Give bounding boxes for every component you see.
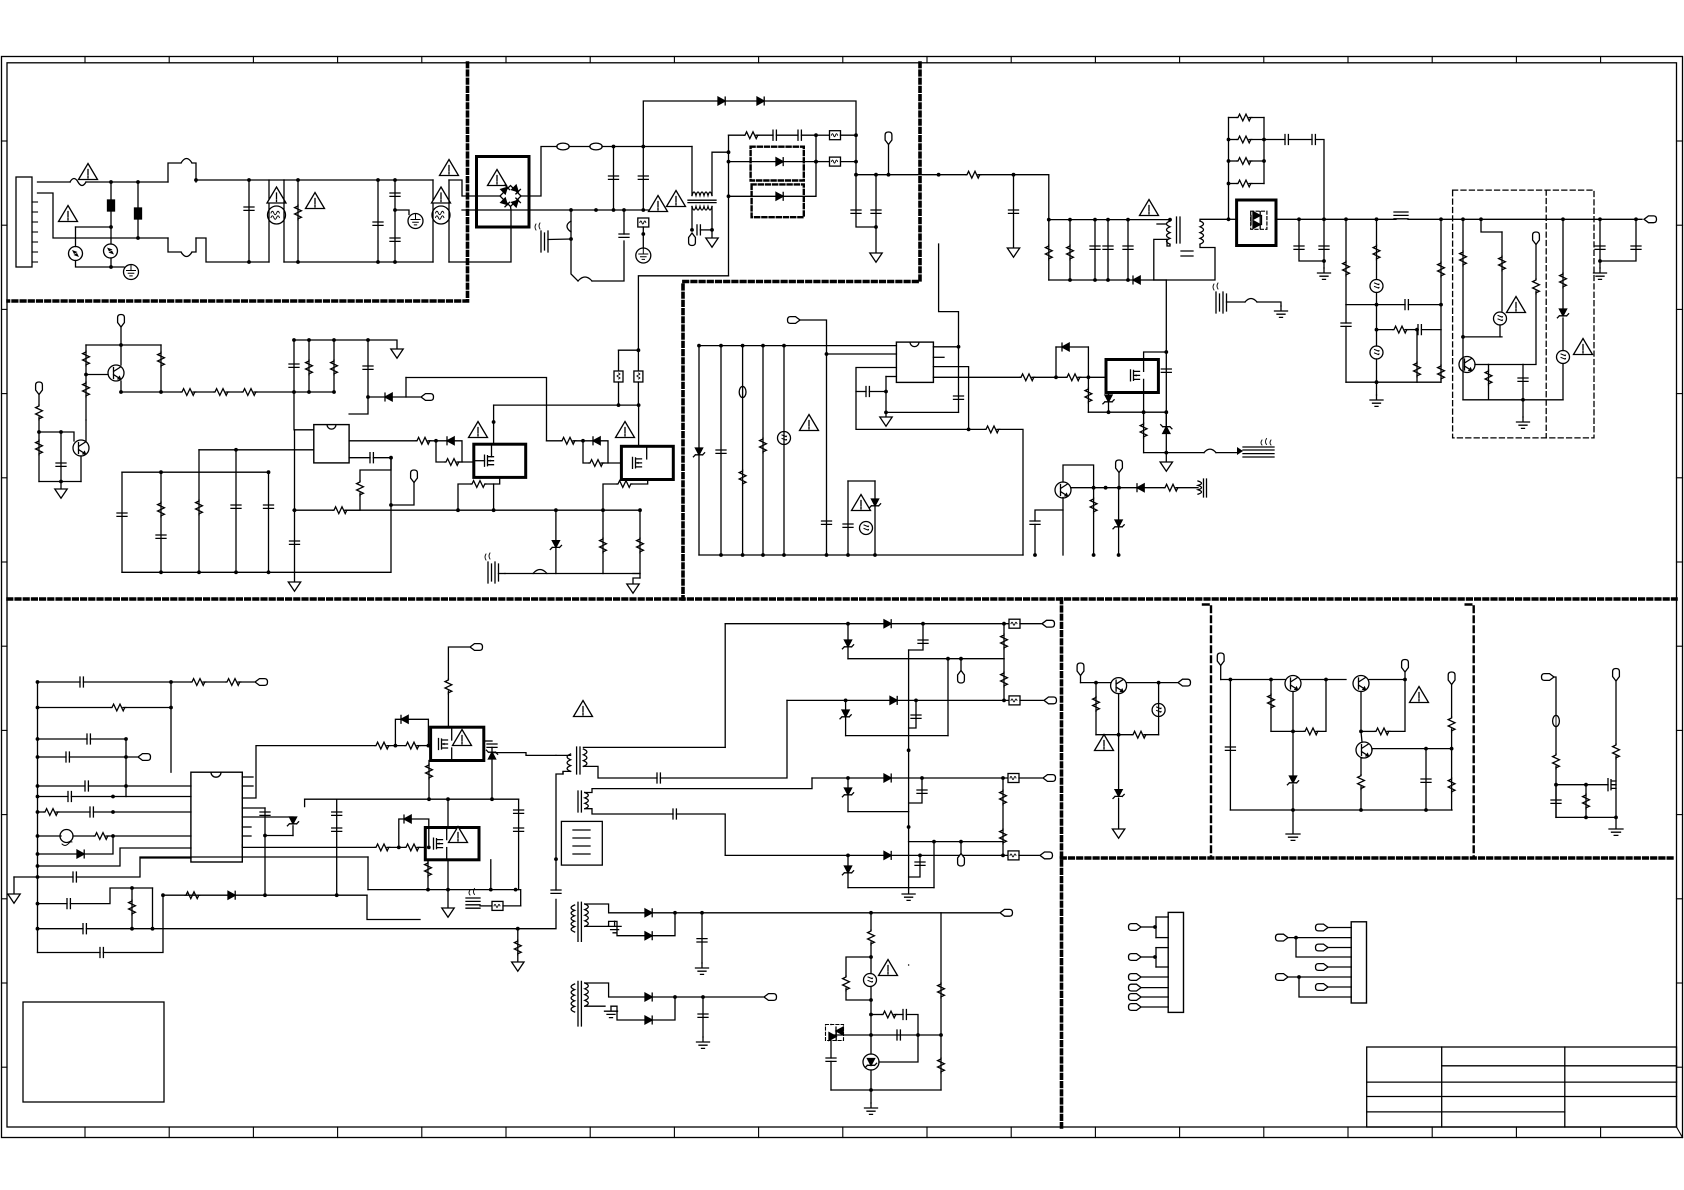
- resistor R10: [1438, 365, 1445, 380]
- wire rect diode bus2: [1261, 216, 1263, 225]
- wire c2 row2: [1271, 730, 1304, 732]
- wire R20 col: [85, 345, 87, 375]
- chassis ground sym2: [1609, 829, 1623, 835]
- warning triangle above bridge: [440, 160, 459, 176]
- node: [1450, 747, 1454, 751]
- wire QC source int: [451, 748, 453, 761]
- wire out row1 riser: [724, 624, 726, 748]
- node: [161, 893, 165, 897]
- wire sgnd center: [908, 964, 910, 966]
- wire x1166 down: [1165, 412, 1167, 452]
- wire Q14 col: [1360, 692, 1362, 732]
- node: [907, 825, 911, 829]
- wire Q13 col c: [1292, 785, 1294, 810]
- wire R84 col: [1585, 785, 1587, 818]
- earth ground sym7: [696, 963, 709, 974]
- wire D12 to flag: [392, 396, 420, 398]
- wire IC1 stub4: [242, 835, 251, 837]
- wire IC2 stub: [933, 356, 944, 358]
- warning triangle QD: [449, 827, 468, 843]
- wire QD drain int: [446, 828, 448, 840]
- wire row757 b: [69, 756, 137, 758]
- wire FB2 drop: [960, 842, 962, 854]
- diode D28: [884, 774, 891, 782]
- wire fbg top col: [870, 913, 872, 930]
- fuse F1: [70, 179, 86, 186]
- wire c3 col2: [1615, 756, 1617, 817]
- wire R9 col: [1416, 330, 1418, 383]
- capacitor C31: [264, 505, 274, 508]
- node: [700, 911, 704, 915]
- wire C1 column: [613, 147, 615, 211]
- resistor R80: [1448, 717, 1455, 732]
- wire p3 line: [1141, 976, 1168, 978]
- diode D25: [645, 1016, 652, 1024]
- thermistor TH1: [739, 386, 746, 397]
- wire row2 return: [846, 735, 948, 737]
- wire top rail stage2: [196, 179, 284, 181]
- wire R27 col: [38, 432, 40, 482]
- wire x948 col: [947, 659, 949, 736]
- wire row682 c: [171, 681, 191, 683]
- border zone ticks top: [85, 57, 1601, 63]
- wire R76 col: [1270, 680, 1272, 732]
- wire RL2 right: [1249, 139, 1264, 141]
- resistor R76: [1268, 694, 1275, 709]
- wire T3 sec top: [583, 746, 725, 748]
- resistor R65: [1001, 634, 1008, 649]
- fusible resistor FR9: [1008, 774, 1019, 783]
- wire bank2 bottom rail: [122, 571, 295, 573]
- thermistor TH2: [60, 830, 73, 843]
- wire C26 col: [293, 340, 295, 392]
- transformer T4 winding: [585, 793, 589, 809]
- node: [159, 470, 163, 474]
- capacitor C2: [638, 176, 648, 179]
- wire C13 to C14: [1288, 139, 1312, 141]
- node: [710, 228, 714, 232]
- wire node to FR2: [816, 134, 830, 136]
- resistor R25: [242, 389, 257, 396]
- diode D20: [228, 891, 235, 899]
- wire R10 col: [1440, 330, 1442, 383]
- resistor R70: [843, 976, 850, 991]
- node: [854, 173, 858, 177]
- wire C74 col: [909, 855, 920, 877]
- wire PC6 right: [879, 1035, 918, 1062]
- wire gateA to box: [417, 745, 431, 747]
- wire U2 out: [1276, 218, 1299, 220]
- node: [59, 480, 63, 484]
- warning triangle in BD1: [488, 170, 507, 186]
- capacitor C74: [915, 862, 925, 865]
- wire F2 to F3: [569, 146, 590, 148]
- terminal flag P8: [1276, 934, 1289, 941]
- node: [151, 927, 155, 931]
- wire p4 line: [1141, 987, 1168, 989]
- capacitor C14: [1312, 135, 1315, 145]
- node: [1269, 678, 1273, 682]
- wire C11 column: [1107, 220, 1109, 280]
- wire row707 b: [123, 707, 171, 709]
- wire ladder tap: [1264, 139, 1285, 141]
- wire IC1 stub2: [242, 785, 253, 787]
- signal ground sym1: [706, 238, 718, 247]
- wire HT2 link: [480, 905, 492, 907]
- wire R63 col: [427, 860, 429, 890]
- wire c2 flag2 riser: [1404, 672, 1406, 680]
- diode D24: [645, 993, 652, 1001]
- wire x294 col: [294, 392, 314, 430]
- transformer T5 right winding: [585, 904, 589, 926]
- signal ground sym4: [55, 489, 67, 498]
- wire RX1 column: [297, 180, 299, 262]
- node: [1439, 217, 1443, 221]
- terminal flag PFC-GND: [689, 233, 696, 246]
- wire x368 down: [349, 397, 368, 414]
- node: [1227, 138, 1231, 142]
- node: [36, 852, 40, 856]
- wire ZD12 col: [847, 855, 849, 887]
- main horizontal section dotted divider: [8, 597, 1676, 601]
- node: [247, 260, 251, 264]
- node: [887, 173, 891, 177]
- wire out row2 c: [1020, 699, 1043, 701]
- sub-circuit bottom dotted divider: [1062, 856, 1677, 860]
- node: [1439, 303, 1443, 307]
- node: [1164, 451, 1168, 455]
- node: [641, 145, 645, 149]
- wire fb row1b: [1408, 304, 1441, 306]
- node: [376, 260, 380, 264]
- node: [1126, 218, 1130, 222]
- node: [1153, 955, 1157, 959]
- wire 24V rail: [1299, 218, 1396, 220]
- wire IC2 fb loop: [856, 368, 985, 430]
- aux mosfet QS box: [1106, 360, 1158, 393]
- terminal flag B+sense: [885, 132, 892, 145]
- node: [1461, 335, 1465, 339]
- terminal flag DIM: [255, 679, 268, 686]
- wire snubber diode col: [491, 747, 493, 752]
- resistor R82: [1553, 754, 1560, 769]
- wire prot col2: [1481, 219, 1502, 232]
- node: [1227, 217, 1231, 221]
- wire node to FR3: [816, 161, 830, 163]
- node: [1168, 218, 1172, 222]
- node: [554, 508, 558, 512]
- capacitor C75: [903, 1010, 906, 1020]
- wire FR5 bottom lead: [637, 382, 639, 405]
- resistor R55: [129, 900, 136, 915]
- node: [36, 784, 40, 788]
- wire left col fbg c: [830, 1061, 832, 1090]
- wire C27 col: [367, 340, 369, 397]
- wire c2 left col: [1229, 680, 1231, 811]
- wire bottom rail stage3: [284, 261, 433, 263]
- node: [1424, 808, 1428, 812]
- node: [594, 208, 598, 212]
- relay arc 3: [533, 570, 547, 574]
- wire p11 loop: [1299, 977, 1351, 997]
- wire IC2 pin6 row: [933, 376, 1020, 378]
- sub-circuit cell dotted divider 2: [1466, 605, 1474, 859]
- wire RT1 column: [110, 182, 112, 227]
- wire T-PFC main out: [712, 152, 729, 195]
- protection dashed divider: [1545, 190, 1547, 438]
- warning triangle QC: [453, 730, 472, 746]
- wire fb row2: [1377, 329, 1394, 331]
- wire C22 col: [1600, 219, 1636, 261]
- resistor R78: [1375, 728, 1390, 735]
- wire C71 col: [909, 624, 923, 650]
- fusible resistor FR8: [1009, 696, 1020, 705]
- node: [1359, 730, 1363, 734]
- wire T3 sec bottom: [583, 766, 657, 778]
- node: [292, 390, 296, 394]
- resistor R52: [111, 704, 126, 711]
- node: [1106, 218, 1110, 222]
- wire T1 sec bottom lead: [1154, 244, 1215, 280]
- wire c2 top rail: [1221, 679, 1285, 681]
- node: [393, 208, 397, 212]
- signal ground sym7: [627, 584, 639, 593]
- rectifier diode D11: [1253, 221, 1260, 229]
- wire D9 to primary return: [1140, 239, 1167, 280]
- wire row812 b: [56, 811, 90, 813]
- wire R46 col: [1087, 377, 1089, 412]
- resistor R59: [405, 844, 420, 851]
- wire FB1 drop: [960, 659, 962, 671]
- resistor R35: [445, 459, 460, 466]
- wire x518 top link: [492, 798, 519, 800]
- node: [1117, 733, 1121, 737]
- wire sgnd sense lead: [633, 578, 640, 583]
- title block column line 1: [1441, 1047, 1443, 1127]
- signal ground sym6: [288, 582, 300, 591]
- node: [701, 995, 705, 999]
- transformer T1 core: [1177, 217, 1181, 243]
- wire R15 col: [1562, 219, 1564, 309]
- warning triangle at F1: [79, 164, 98, 180]
- resistor R39: [471, 481, 486, 488]
- node: [109, 180, 113, 184]
- node: [846, 553, 850, 557]
- PFC section dotted boundary: [683, 63, 920, 599]
- node: [916, 1033, 920, 1037]
- wire B+ drop to IC2: [939, 244, 959, 347]
- node: [1047, 218, 1051, 222]
- wire D24 out: [652, 996, 763, 998]
- resistor R5: [1343, 261, 1350, 276]
- wire fbg main row: [831, 1034, 941, 1036]
- fuse F3: [590, 143, 602, 150]
- wire QB drain int: [646, 446, 648, 459]
- capacitor C73: [917, 790, 927, 793]
- warning triangle prot2: [1574, 339, 1593, 355]
- wire ladder left rail: [1228, 118, 1230, 220]
- warning triangle near ZNR1: [59, 206, 78, 222]
- capacitor C71: [918, 640, 928, 643]
- node: [1634, 217, 1638, 221]
- wire C25 col: [60, 432, 62, 482]
- wire T6 sec mid: [585, 1005, 605, 1007]
- node: [394, 744, 398, 748]
- node: [36, 864, 40, 868]
- node: [1598, 217, 1602, 221]
- wire bank2 sub rail: [199, 449, 314, 451]
- capacitor C7: [851, 210, 861, 213]
- node: [1415, 328, 1419, 332]
- wire R13 col: [1488, 365, 1490, 400]
- node: [697, 344, 701, 348]
- terminal flag P6: [1129, 1004, 1142, 1011]
- wire ZNR2 top: [110, 227, 112, 244]
- node: [1322, 217, 1326, 221]
- PFC inductor core: [688, 200, 716, 202]
- wire flag drop: [888, 145, 890, 175]
- node: [397, 846, 401, 850]
- terminal flag OUT1: [1042, 620, 1055, 627]
- terminal flag STBY-FB: [788, 317, 801, 324]
- wire R40 col: [602, 510, 604, 573]
- node: [267, 570, 271, 574]
- node: [1001, 776, 1005, 780]
- earth ground sym3: [1517, 417, 1530, 428]
- fuse F2: [557, 143, 569, 150]
- wire C70 col: [702, 997, 704, 1037]
- wire R61 to box: [447, 691, 449, 727]
- wire row889 jog: [516, 890, 521, 906]
- wire bank bottom rail: [1049, 279, 1133, 281]
- wire 24V rail b: [1408, 218, 1642, 220]
- wire D18 loop: [395, 719, 401, 745]
- bridge rectifier BD1 box: [477, 157, 530, 228]
- transformer T1 primary: [1167, 221, 1171, 244]
- node: [884, 411, 888, 415]
- node: [727, 194, 731, 198]
- wire stby pin2 row: [827, 353, 897, 355]
- diode D13: [447, 437, 454, 445]
- node: [1291, 808, 1295, 812]
- bottom right section dotted divider vertical: [1060, 599, 1064, 1127]
- wire RL3 right: [1249, 160, 1264, 162]
- wire row707 a: [38, 707, 112, 709]
- node: [741, 553, 745, 557]
- capacitor C80: [1551, 800, 1561, 803]
- capacitor C58: [83, 924, 86, 934]
- wire out row3 b: [891, 777, 1008, 779]
- warning triangle mosA: [469, 422, 488, 438]
- node: [569, 237, 573, 241]
- wire D13 out: [454, 441, 474, 462]
- node: [1554, 783, 1558, 787]
- wire ZD8 col: [292, 826, 294, 836]
- terminal flag C1A: [1077, 663, 1084, 676]
- wire out row3: [812, 777, 884, 779]
- wire D16 right: [1144, 487, 1164, 489]
- node: [637, 403, 641, 407]
- wire c2 row3 b: [1387, 680, 1405, 732]
- wire Q1 collector: [120, 345, 122, 365]
- wire drain bus: [494, 404, 639, 406]
- node: [1093, 218, 1097, 222]
- transformer T3 secondary: [583, 749, 587, 766]
- PFC mosfet QA box: [474, 444, 526, 477]
- title block row line 1: [1442, 1065, 1677, 1067]
- wire p12 line: [1328, 986, 1351, 988]
- resistor R20: [83, 351, 90, 366]
- wire D23 out: [652, 913, 675, 936]
- wire p9 line: [1328, 947, 1351, 949]
- resistor R66: [1001, 672, 1008, 687]
- bypass diode D8: [776, 192, 783, 200]
- node: [641, 232, 645, 236]
- capacitor C53: [85, 781, 88, 791]
- wire prot row: [1463, 336, 1502, 338]
- wire QA src col: [493, 484, 495, 510]
- capacitor C5: [773, 130, 776, 140]
- wire bank left column: [1048, 220, 1050, 280]
- fusible resistor FR5: [634, 371, 643, 382]
- capacitor C16: [1319, 246, 1329, 249]
- capacitor C27: [363, 366, 373, 369]
- wire row757 a: [38, 756, 67, 758]
- wire stage3 right edge: [432, 180, 434, 262]
- capacitor C26: [289, 364, 299, 367]
- wire fb row 481: [848, 480, 875, 482]
- resistor R8: [1393, 326, 1408, 333]
- wire gate feed A: [242, 746, 375, 798]
- zener diode ZD9: [842, 640, 853, 649]
- diode D19: [404, 815, 411, 823]
- wire C72 col: [909, 700, 916, 728]
- node: [490, 797, 494, 801]
- wire QC drain int: [451, 727, 453, 740]
- node: [727, 150, 731, 154]
- signal ground sym14: [1112, 829, 1124, 838]
- wire R79 col b: [1360, 787, 1362, 810]
- terminal flag FB1: [958, 671, 965, 684]
- resistor R36: [561, 437, 576, 444]
- wire IC2 gnd row: [886, 411, 959, 413]
- terminal flag P4: [1129, 984, 1142, 991]
- wire QB source res: [631, 480, 648, 485]
- capacitor C78: [1225, 747, 1235, 750]
- node: [36, 706, 40, 710]
- wire flag drop ctrl: [120, 327, 122, 345]
- wire C73 col: [909, 778, 922, 803]
- wire Y-cap column: [394, 180, 396, 262]
- wire D5 to D6: [725, 100, 757, 102]
- transistor Q2: [73, 440, 89, 456]
- wire out row1 c: [1020, 623, 1041, 625]
- bulk capacitor C10: [1090, 246, 1100, 249]
- node: [109, 265, 113, 269]
- wire sgnd sense stub: [633, 574, 640, 579]
- wire R55 col: [131, 888, 133, 929]
- boost diode D6: [757, 97, 764, 105]
- wire stair x152: [152, 888, 154, 929]
- transistor Q13: [1285, 676, 1301, 692]
- PFC mosfet QB box: [621, 446, 673, 479]
- wire col x958: [958, 347, 960, 413]
- wire row796 a: [38, 796, 69, 798]
- wire ladder right rail: [1263, 118, 1265, 184]
- wire C40 link: [1035, 510, 1063, 521]
- earth ground sym10: [865, 1103, 878, 1114]
- resistor R57: [405, 742, 420, 749]
